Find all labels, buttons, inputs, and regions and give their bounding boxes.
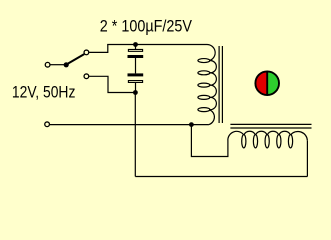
terminal T2 (lower input) (45, 122, 50, 127)
wire top rail to transformer primary (107, 44, 206, 46)
wire C1 to C2 (135, 58, 137, 73)
wire node B down to bottom rail (134, 93, 136, 177)
bottom rail wire (135, 176, 307, 178)
node C junction dot (189, 122, 194, 127)
svg-text:2 * 100µF/25V: 2 * 100µF/25V (100, 16, 193, 35)
duo LED indicator divider (266, 72, 268, 95)
transformer TR1 primary core lines (218, 46, 220, 123)
wire secondary right end down (306, 141, 308, 177)
transformer TR1 primary winding (198, 44, 216, 124)
wire node C to secondary left end (191, 125, 228, 157)
switch S1 lower contact (84, 74, 89, 79)
node B junction dot (133, 90, 138, 95)
svg-text:12V, 50Hz: 12V, 50Hz (12, 82, 76, 101)
duo LED indicator green half (267, 71, 279, 95)
duo LED indicator outline (255, 71, 279, 95)
terminal T1 (upper input) (45, 62, 50, 67)
switch S1 blade (67, 54, 85, 64)
capacitor C2 plate - (solid) (128, 73, 144, 76)
capacitor C1 plate + (hollow) (128, 49, 142, 51)
wire lower contact to node B (89, 76, 135, 92)
duo LED indicator red half (255, 71, 267, 95)
wire T1 to switch pivot (50, 64, 64, 66)
switch S1 upper contact (84, 50, 89, 55)
transformer TR1 secondary core lines (230, 123, 311, 125)
wire upper contact to top rail (step) (89, 45, 108, 53)
transformer TR1 secondary winding (228, 131, 308, 148)
switch S1 pivot junction dot (64, 62, 69, 67)
wire node A down to C1 (135, 45, 137, 50)
capacitor C2 plate + (hollow) (128, 81, 142, 83)
wire T2 to node C (50, 124, 208, 126)
node A junction dot (133, 42, 138, 47)
capacitor C1 plate - (solid) (128, 55, 144, 58)
wire C2 to node B (135, 83, 137, 93)
